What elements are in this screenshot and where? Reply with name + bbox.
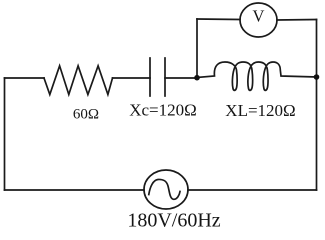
svg-text:60Ω: 60Ω [73,107,99,123]
wire top-left horizontal [5,77,45,79]
wire voltmeter to right rail [277,19,317,22]
inductor XL coil [197,62,317,90]
wire voltmeter branch left horizontal [197,18,240,21]
resistor R 60ohm zigzag [44,66,113,95]
node A junction dot [194,75,200,81]
svg-text:180V/60Hz: 180V/60Hz [127,210,220,232]
wire bottom-right horizontal [188,189,317,191]
svg-text:Xc=120Ω: Xc=120Ω [129,101,197,120]
wire capacitor to node A [165,77,197,79]
capacitor C Xc plate right [164,58,166,96]
node B junction dot right [314,74,320,80]
wire node A up to voltmeter branch [196,19,198,78]
svg-text:XL=120Ω: XL=120Ω [225,101,295,120]
wire resistor to capacitor [113,77,151,79]
capacitor C Xc plate left [149,58,151,96]
wire right vertical rail [316,20,318,191]
wire left vertical [4,78,6,190]
svg-text:V: V [253,7,265,26]
voltmeter V circle [240,3,277,37]
wire bottom-left horizontal [5,189,145,191]
AC source 180V/60Hz circle [144,170,188,209]
AC source sine wave [149,179,180,199]
